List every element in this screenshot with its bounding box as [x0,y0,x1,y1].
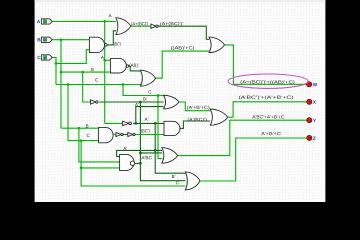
node C tap x67.7 [67,83,70,86]
OR G2 A+(BC)' [116,18,131,35]
AND U8 BC [99,127,114,142]
wire A' horizontal y150.4 to OR U12 top input [117,150,163,156]
wire C horizontal y84.5 to OR G6 bottom input [56,84,141,86]
wire (A+(BC)')' NOT G3 output to OR G4 top input [158,26,209,39]
wire AND U8 output to NOT pair [113,134,116,136]
wire C pin elbow [52,57,56,84]
wire (A'+B'+C) OR U9 output to OR U14 top input [179,102,210,111]
node A tap to NAND U2 [103,59,106,62]
svg-text:(BC')': (BC')' [141,128,151,133]
node B' tap x140.4 [139,101,142,104]
node A' tap x155.2 [154,122,157,125]
node A junction on A wire [103,20,106,23]
wire (BC)' NAND U1 output to OR G2 bottom input [107,31,116,45]
node A' tap x135.8 [134,122,137,125]
wire B drop to NAND U11 middle input [79,128,120,162]
wire B' stub to OR U12 middle input [140,152,162,154]
node B tap to NOT U6 [81,71,84,74]
svg-text:A'BC'+A'+B'+C: A'BC'+A'+B'+C [252,114,285,119]
svg-text:(A+(BC)')'+((AB)'+C): (A+(BC)')'+((AB)'+C) [240,79,295,84]
svg-text:B: B [86,124,89,129]
wire between NOT pair [123,134,128,136]
svg-text:A: A [109,13,112,18]
node A'BC join on vertical [139,162,142,165]
OR G4 W-gate [209,37,224,53]
wire C sub-drop x123 to y95.5 into OR U9 top input [123,85,164,96]
wire C to NAND U1 bottom input [56,50,89,64]
wire A' drop x155.2 to OR U13 top input area [155,123,185,173]
wire C drop x81.1 down to Z OR gate [81,141,185,186]
wire (AB)' NAND U2 output jog to OR G5 top input [129,66,141,71]
node C tap x81.1 [80,139,83,142]
svg-text:(A+(BC)')': (A+(BC)')' [160,21,184,26]
OR U13 Z-gate [185,172,200,190]
svg-text:(A'+B'+C): (A'+B'+C) [187,105,210,110]
wire B vertical rail down [60,40,62,129]
svg-text:A': A' [145,117,149,122]
wire A' NOT U7 output to AND U10 top input [133,122,164,124]
wire Y: OR U12 output to output pin Y [178,120,307,155]
wire A pin to OR G2 top input [52,20,116,22]
OR U9 A'+B'+C [164,95,179,109]
svg-text:Z: Z [313,136,316,141]
wire B horizontal into AND U8 top input [61,127,99,129]
svg-text:(AB)': (AB)' [129,63,139,68]
wire B' vertical drop x140.4 [140,102,185,181]
wire Z: OR U13 output to output pin Z [200,138,307,181]
OR G5 (AB)'+C [140,70,155,86]
NOT pair first [116,132,121,136]
svg-text:W: W [313,82,318,87]
output pin Z [307,135,312,140]
node C tap to NAND U11 bottom input [80,167,83,170]
NOT pair second [128,132,133,136]
input pin C [41,55,52,60]
wire (A+(BC)') OR G2 output to NOT G3 [131,25,151,27]
NOT G3 [151,24,156,28]
wire C stub into NAND U11 bottom input [81,167,120,169]
AND U10 A'(BC')' [164,121,180,135]
wire (A'(BC')') AND U10 output to OR U14 bottom input [180,121,210,128]
wire X: OR U14 output to output pin X [228,102,307,117]
wire (BC')' double-NOT output to AND U10 bottom input [135,134,164,136]
node B' tap to OR U12 middle input [139,152,142,155]
wire A rail elbow into NOT U7 [105,122,123,124]
node B tap y72 [60,71,63,74]
svg-text:A: A [37,19,41,24]
output pin W [307,82,312,87]
svg-text:B: B [91,67,94,72]
NOT U7 A' [123,121,129,125]
wire A stub into NAND U2 top input [105,59,111,61]
svg-text:B': B' [172,174,176,179]
svg-text:(A+(BC)'): (A+(BC)') [131,21,149,26]
wire B drop to NOT U6 input [83,72,91,102]
wire B' NOT U6 output to OR U9 middle input [99,101,163,103]
node C tap x123 [122,83,125,86]
node C junction y63.4 [55,62,58,65]
wire ((AB)'+C) OR G5 output up to OR G4 bottom input [156,51,210,78]
NOT U6 B' [91,100,96,104]
svg-text:(BC)': (BC)' [114,42,122,47]
svg-text:(A'BC')'+(A'+B'+C): (A'BC')'+(A'+B'+C) [239,95,295,100]
svg-text:A: A [101,55,104,60]
NAND U2 (AB)' [110,58,126,73]
wire A' up-branch to OR U9 bottom input [136,107,164,124]
output pin X [307,99,312,104]
wire B horizontal to NAND U2 bottom input [61,71,110,73]
NAND U11 A'BC [120,154,135,170]
svg-text:A': A' [135,102,139,107]
svg-text:A'+B'+C: A'+B'+C [261,131,282,136]
svg-text:(A'(BC)'): (A'(BC)') [187,117,207,122]
node A' tap y150.4 [154,149,157,152]
input pin A [41,19,52,24]
svg-text:B': B' [143,97,147,102]
wire A vertical rail down [104,21,106,123]
svg-text:A': A' [123,146,127,151]
output pin Y [307,118,312,123]
OR U14 X-gate [210,109,228,125]
wire B pin to NAND U1 top input [52,39,89,41]
highlight ellipse around W expression [228,74,308,88]
wire W: OR G4 output to output pin W [225,45,307,84]
node B junction [60,38,63,41]
wire C drop to AND U8 bottom input [68,85,99,141]
node B tap x78.9 [78,127,81,130]
OR U12 Y-gate [162,148,178,164]
svg-text:A'BC: A'BC [141,155,152,160]
input pin B [41,37,52,42]
wire C drop x158 to OR U12 bottom input [158,96,162,159]
node C tap x158 [157,94,160,97]
wire A'BC NAND U11 output join to vertical [135,162,141,164]
svg-text:((AB)'+C): ((AB)'+C) [171,45,196,50]
NAND U1 (BC)' [89,37,104,52]
